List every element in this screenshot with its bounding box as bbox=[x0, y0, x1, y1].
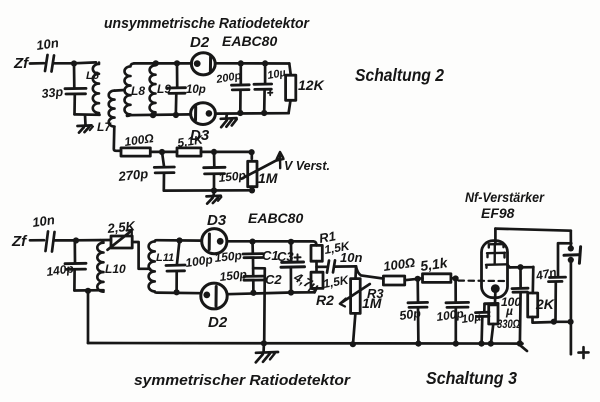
svg-text:EABC80: EABC80 bbox=[248, 210, 303, 226]
capacitor 140p bbox=[73, 241, 76, 263]
inductor L11 bbox=[149, 241, 155, 291]
svg-text:330Ω: 330Ω bbox=[497, 317, 520, 331]
wire 33p bottom to L6 bottom bbox=[75, 113, 100, 116]
node corner 1M top bbox=[249, 149, 255, 155]
rail end slash bbox=[521, 346, 528, 351]
inductor L10 bbox=[97, 240, 103, 291]
svg-text:10p: 10p bbox=[186, 84, 206, 96]
wire input stub top bbox=[30, 62, 44, 65]
wire 100R to 5,1K bbox=[150, 151, 177, 154]
svg-text:33p: 33p bbox=[41, 85, 64, 101]
inductor L7 bbox=[109, 91, 115, 127]
capacitor 270p bbox=[162, 152, 164, 166]
node L9 bottom bbox=[150, 112, 156, 118]
diode D2 (bottom circuit tube) bbox=[201, 283, 227, 309]
tube cathode bbox=[491, 284, 500, 293]
svg-text:L7: L7 bbox=[97, 120, 112, 134]
node C3 top bbox=[288, 239, 294, 245]
resistor 330R bbox=[489, 305, 498, 324]
screen lead to 100u / 2K bbox=[510, 266, 534, 269]
node 50p top bbox=[415, 276, 421, 282]
node 200p bottom bbox=[237, 110, 243, 116]
svg-text:Zf: Zf bbox=[11, 233, 28, 250]
resistor R1 1,5K bbox=[311, 245, 322, 261]
node 10u bottom on rail bbox=[478, 341, 484, 347]
svg-text:10µ: 10µ bbox=[461, 311, 482, 326]
svg-text:C3: C3 bbox=[277, 249, 294, 264]
capacitor 150p (top circuit) bbox=[213, 152, 216, 167]
wire L11 top to D3 bbox=[155, 240, 202, 241]
svg-text:1M: 1M bbox=[362, 295, 382, 311]
title symmetrischer Ratiodetektor bbox=[134, 372, 351, 389]
svg-text:10n: 10n bbox=[31, 212, 55, 230]
node midpoint tap / ground bbox=[261, 340, 267, 346]
ground (bottom rail) bbox=[262, 343, 265, 351]
resistor 2K bbox=[531, 267, 534, 293]
wire 270p bottom to 1M bottom bbox=[164, 189, 252, 192]
svg-text:L11: L11 bbox=[156, 252, 174, 264]
node 270p top bbox=[159, 149, 165, 155]
capacitor 10n (bottom input) bbox=[46, 232, 55, 252]
node C1 top bbox=[249, 239, 255, 245]
capacitor 100p (Schaltung 3) bbox=[454, 279, 457, 302]
svg-text:Zf: Zf bbox=[13, 55, 30, 72]
svg-text:R2: R2 bbox=[316, 292, 334, 308]
resistor 100R (top circuit) bbox=[121, 148, 150, 156]
capacitor C2 150p bbox=[244, 276, 264, 280]
ground (top-left, L6) bbox=[84, 115, 87, 125]
resistor 5,1K (Schaltung 3) bbox=[423, 274, 451, 283]
wire R3 node to 100R bbox=[356, 266, 383, 278]
svg-text:symmetrischer Ratiodetektor: symmetrischer Ratiodetektor bbox=[134, 372, 351, 389]
diode D3 (bottom circuit tube) bbox=[202, 229, 227, 254]
wire 140p bottom to L10 bottom bbox=[74, 289, 103, 292]
node junction top input bbox=[71, 60, 77, 66]
title Schaltung 2 circuit name bbox=[104, 15, 310, 32]
node ground stem (150p bottom) bbox=[211, 187, 217, 193]
svg-text:L6: L6 bbox=[86, 70, 100, 82]
svg-text:D3: D3 bbox=[207, 212, 227, 229]
node 47n bottom bbox=[551, 319, 557, 325]
node 100p top (Schaltung 3) bbox=[453, 275, 459, 281]
svg-text:EF98: EF98 bbox=[481, 205, 515, 221]
top rail anode to right bbox=[495, 229, 570, 231]
inductor L8 bbox=[124, 63, 134, 116]
wire L7 bottom to 100R bbox=[114, 127, 121, 151]
node right rail lower bbox=[568, 319, 574, 325]
svg-text:V Verst.: V Verst. bbox=[284, 158, 330, 173]
capacitor 100p (bottom circuit) bbox=[177, 241, 180, 265]
wire 47n junction to right rail bbox=[554, 320, 571, 323]
wire L7 top to L8 centre tap bbox=[115, 89, 125, 92]
node rail end bbox=[517, 340, 523, 346]
label D2 bbox=[190, 34, 210, 51]
wiper arrow 1M to Verst. bbox=[242, 159, 279, 179]
node 330R bottom on rail bbox=[488, 341, 494, 347]
node 100p bottom on rail bbox=[453, 341, 459, 347]
resistor 12K bbox=[289, 64, 291, 76]
svg-text:unsymmetrische Ratiodetektor: unsymmetrische Ratiodetektor bbox=[104, 15, 310, 32]
node 10p bottom bbox=[173, 112, 179, 118]
svg-text:10n: 10n bbox=[35, 35, 59, 53]
svg-text:100p: 100p bbox=[184, 252, 213, 270]
wire 10n to node bbox=[54, 62, 75, 65]
capacitor 100u electrolytic bbox=[517, 264, 523, 270]
resistor R2 1,5K bbox=[311, 272, 323, 288]
capacitor 10n (R1-R2 junction) bbox=[317, 265, 328, 268]
capacitor C 10n (top input) bbox=[45, 55, 54, 72]
svg-text:Schaltung 3: Schaltung 3 bbox=[426, 368, 517, 388]
ground (right of D3 top circuit) bbox=[225, 114, 228, 118]
svg-text:C2: C2 bbox=[265, 272, 282, 287]
ground (below 150p top circuit) bbox=[212, 191, 215, 195]
potentiometer 2,5K bbox=[111, 236, 132, 248]
tube EF98 envelope bbox=[482, 241, 508, 298]
capacitor C3 electrolytic bbox=[290, 242, 293, 261]
node C3 bottom bbox=[288, 289, 294, 295]
svg-text:100Ω: 100Ω bbox=[382, 255, 416, 274]
wire C1-C2 midpoint tap down to rail bbox=[253, 268, 265, 343]
svg-text:12K: 12K bbox=[298, 77, 325, 93]
wire D2 to R2 bottom (bottom wire) bbox=[155, 292, 201, 293]
svg-text:Schaltung 2: Schaltung 2 bbox=[355, 65, 444, 85]
cathode junction bar bbox=[485, 302, 498, 305]
node 10u top bbox=[262, 60, 268, 66]
svg-text:270p: 270p bbox=[117, 166, 149, 184]
wire node over L10 to 2,5K bbox=[76, 239, 111, 242]
inductor L9 bbox=[150, 63, 156, 115]
capacitor 10u electrolytic (top) bbox=[264, 63, 267, 83]
node 200p top bbox=[238, 60, 244, 66]
svg-text:EABC80: EABC80 bbox=[222, 33, 277, 49]
label EABC80 bbox=[222, 33, 277, 49]
plus terminal bbox=[579, 347, 589, 358]
capacitor 47n bbox=[558, 243, 571, 276]
wire 5,1K to 1M corner bbox=[201, 152, 252, 159]
svg-text:150p: 150p bbox=[214, 248, 243, 265]
svg-text:2K: 2K bbox=[535, 296, 555, 312]
wire D2 to 12K corner bbox=[215, 62, 289, 65]
svg-text:2,5K: 2,5K bbox=[106, 218, 137, 236]
bottom rail Schaltung 3 bbox=[88, 342, 523, 345]
wire L8 top to D2 bbox=[134, 62, 192, 65]
tube third grid bar with lead bbox=[486, 264, 507, 268]
svg-text:140p: 140p bbox=[45, 261, 74, 279]
node R3 bottom on rail bbox=[350, 341, 356, 347]
capacitor 10u (cathode bypass) bbox=[483, 304, 486, 312]
potentiometer R3 1M bbox=[354, 266, 357, 278]
node 100p bottom bbox=[174, 289, 180, 295]
svg-text:1M: 1M bbox=[258, 170, 278, 186]
svg-text:1,5K: 1,5K bbox=[322, 273, 351, 291]
svg-text:150p: 150p bbox=[218, 168, 247, 185]
wire 10n to node (bottom) bbox=[54, 239, 76, 242]
diode D2 (top circuit tube) bbox=[191, 53, 215, 75]
label Schaltung 2 bbox=[355, 65, 444, 85]
node Zf input (top) bbox=[13, 55, 30, 72]
potentiometer 1M (top circuit) bbox=[248, 161, 257, 186]
svg-text:µ: µ bbox=[505, 304, 513, 318]
tube anode centre stem bbox=[494, 244, 496, 264]
capacitor 50p bbox=[416, 279, 419, 302]
node Zf input (bottom) bbox=[11, 233, 28, 250]
label Schaltung 3 bbox=[426, 368, 517, 388]
svg-text:D2: D2 bbox=[208, 314, 228, 331]
wire D3 to R1 (top wire bottom circuit) bbox=[227, 241, 317, 245]
label EABC80 (bottom) bbox=[248, 210, 303, 226]
grid wire dashed into tube bbox=[459, 280, 505, 283]
node junction bottom input bbox=[73, 237, 79, 243]
svg-text:D2: D2 bbox=[190, 34, 210, 51]
diode D3 (top circuit tube) bbox=[191, 103, 216, 125]
node L9 top bbox=[153, 60, 159, 66]
node drop to rail bbox=[85, 288, 91, 294]
wire 100R to 5,1K bbox=[405, 278, 423, 280]
node 10p top bbox=[174, 60, 180, 66]
tube anode bbox=[494, 229, 497, 245]
wire C1 to C2 bbox=[252, 258, 255, 275]
capacitor 10p bbox=[176, 63, 179, 87]
inductor L6 bbox=[93, 63, 99, 115]
right rail with output capacitor bbox=[569, 231, 572, 249]
wire R1 to R2 junction bbox=[315, 261, 318, 272]
svg-text:100Ω: 100Ω bbox=[123, 131, 155, 149]
svg-text:L10: L10 bbox=[105, 262, 126, 276]
wire 2,5K to L11 centre tap bbox=[132, 242, 150, 269]
node 100p top (bottom circuit) bbox=[176, 237, 182, 243]
svg-text:L8: L8 bbox=[131, 84, 145, 98]
resistor 100R (Schaltung 3) bbox=[383, 276, 404, 285]
node C2 bottom bbox=[250, 290, 256, 296]
wire input stub bottom bbox=[30, 239, 44, 242]
svg-text:10n: 10n bbox=[340, 250, 362, 265]
capacitor C1 150p bbox=[251, 242, 254, 253]
svg-text:Nf-Verstärker: Nf-Verstärker bbox=[465, 189, 545, 205]
node 150p top bbox=[211, 149, 217, 155]
wire drop to bottom rail bbox=[87, 291, 90, 343]
tube screen grid bar bbox=[487, 253, 505, 258]
wire node to L6 top bbox=[74, 61, 96, 65]
capacitor 200p bbox=[239, 63, 242, 84]
svg-text:150p: 150p bbox=[219, 267, 248, 284]
node 10u bottom bbox=[261, 110, 267, 116]
resistor 5,1K (top circuit) bbox=[177, 148, 201, 156]
wire L8 bottom to D3 bbox=[127, 113, 191, 116]
node 50p bottom on rail bbox=[415, 341, 421, 347]
svg-text:5,1k: 5,1k bbox=[419, 254, 449, 274]
capacitor 33p bbox=[73, 64, 76, 88]
wire 5,1K to tube grid bbox=[451, 277, 457, 280]
wire D3 to 12K bottom bbox=[215, 112, 288, 115]
